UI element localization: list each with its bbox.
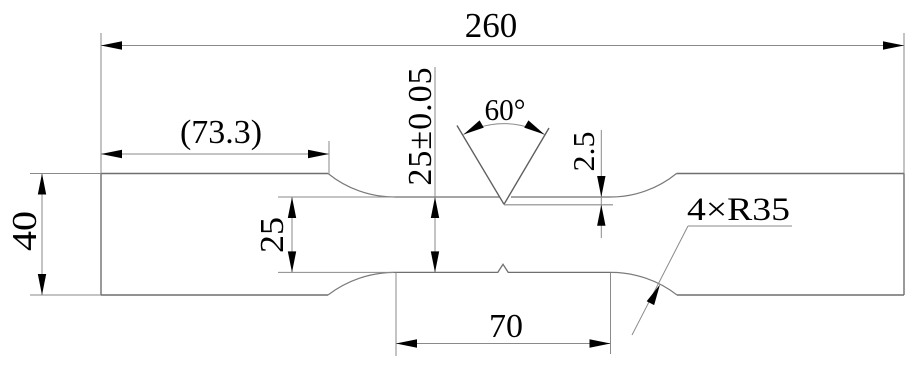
- fillet top-left R35: [328, 174, 395, 198]
- dimension 260: dimension line: [101, 45, 904, 47]
- dimension 260: arrows: [101, 41, 122, 49]
- dimension 25±0.05: arrows: [431, 197, 439, 218]
- fillet top-right R35: [611, 174, 677, 198]
- dimension 40: dimension line: [41, 174, 43, 296]
- specimen outline: left grip: [101, 174, 328, 296]
- label 4xR35: leader line: [632, 226, 688, 335]
- svg-text:2.5: 2.5: [566, 132, 601, 172]
- dimension 40: arrows: [38, 174, 46, 195]
- gauge bottom edge with small notch: [394, 264, 611, 272]
- angle 60deg: arc: [464, 124, 545, 135]
- dimension (73.3): arrows: [101, 150, 122, 158]
- specimen outline: right grip: [677, 174, 905, 296]
- svg-text:40: 40: [5, 211, 44, 251]
- gauge top edge: [395, 196, 611, 198]
- notch root extension line: [504, 204, 613, 206]
- dimension 25±0.05: dimension line with upper extension: [434, 67, 436, 272]
- label 4xR35: underline: [688, 225, 792, 227]
- fillet bottom-left R35: [328, 272, 394, 295]
- dimension 2.5: arrows: [597, 176, 605, 197]
- angle 60deg: arrows: [461, 120, 483, 138]
- fillet bottom-right R35: [611, 272, 677, 295]
- dimension (73.3): extension line right: [328, 141, 330, 174]
- dimension 70: dimension line: [396, 343, 611, 345]
- svg-text:4×R35: 4×R35: [687, 192, 790, 228]
- svg-text:260: 260: [465, 6, 518, 45]
- dimension (73.3): dimension line: [101, 153, 329, 155]
- svg-text:60°: 60°: [485, 92, 526, 127]
- dimension 260: extension lines: [101, 33, 904, 174]
- label 4xR35: leader arrow on fillet: [647, 283, 664, 306]
- svg-text:70: 70: [489, 308, 523, 345]
- dimension 70: arrows: [396, 339, 417, 347]
- V-notch 60deg legs: [457, 126, 549, 205]
- dimension 40: extension lines: [30, 174, 101, 296]
- svg-text:25±0.05: 25±0.05: [402, 66, 439, 185]
- dimension 2.5: dimension line: [600, 130, 602, 238]
- dimension 25: arrows: [288, 197, 296, 218]
- dimension 25: dimension line: [291, 197, 293, 272]
- dimension 25: extension lines: [278, 197, 395, 272]
- dimension 70: extension lines: [396, 272, 611, 356]
- svg-text:(73.3): (73.3): [180, 114, 262, 151]
- svg-text:25: 25: [254, 217, 291, 253]
